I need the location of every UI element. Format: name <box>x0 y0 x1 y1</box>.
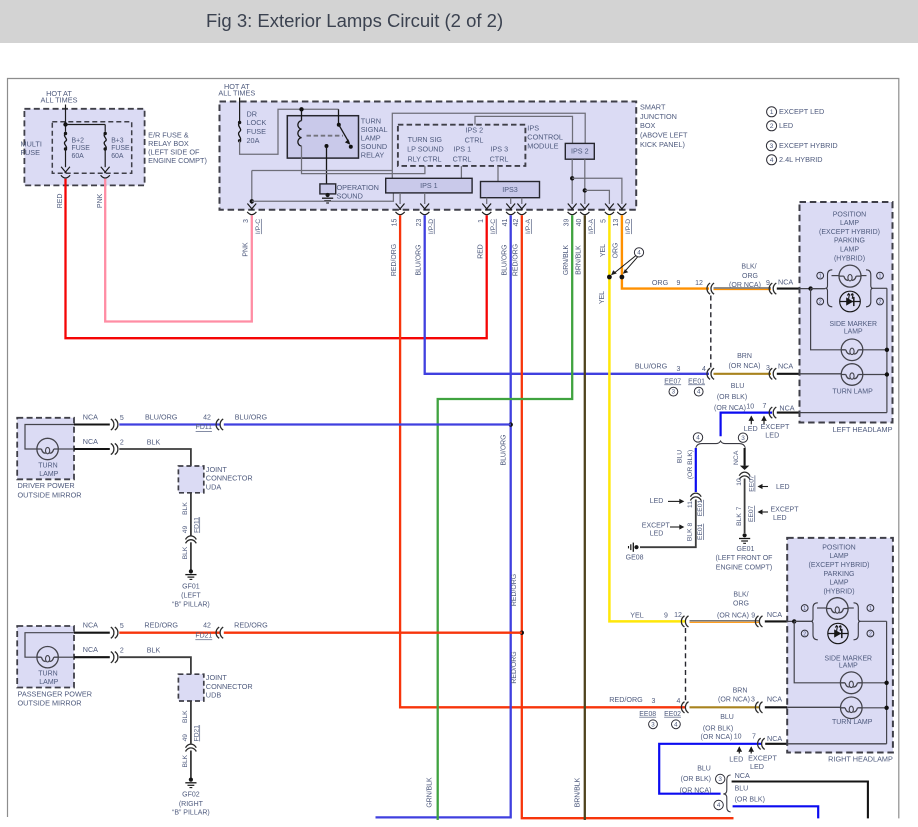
svg-text:2: 2 <box>770 123 774 130</box>
wire BLU/ORG to junction (driver) <box>224 423 511 425</box>
connector C1 right YEL row <box>681 616 688 627</box>
svg-text:BRN/BLK: BRN/BLK <box>576 245 583 275</box>
node turn lamp bus (left) <box>885 372 889 376</box>
svg-text:I/P-A: I/P-A <box>588 219 595 234</box>
svg-text:LAMP: LAMP <box>840 247 859 254</box>
LED lamp (left box) <box>840 291 861 312</box>
svg-text:LAMP: LAMP <box>39 471 58 478</box>
svg-text:POSITION: POSITION <box>822 544 855 551</box>
svg-text:CTRL: CTRL <box>490 155 509 164</box>
svg-text:LED: LED <box>773 515 787 522</box>
legend note 3 EXCEPT HYBRID <box>766 141 776 151</box>
wire right bus (right box) <box>886 621 888 744</box>
svg-text:LED: LED <box>765 430 779 439</box>
svg-text:12: 12 <box>695 280 703 287</box>
dashed link left pair <box>710 296 712 368</box>
wire NCA bottom right going off page <box>732 782 868 819</box>
svg-text:GF02: GF02 <box>182 792 200 799</box>
pin 41 connector (SJB) <box>506 204 515 215</box>
svg-text:OUTSIDE MIRROR: OUTSIDE MIRROR <box>18 490 82 499</box>
svg-text:BLU/ORG: BLU/ORG <box>145 412 178 421</box>
svg-text:3: 3 <box>243 219 250 223</box>
brace left of position lamp (right box) <box>811 603 818 640</box>
note 4 hybrid tie with arrows <box>634 248 643 257</box>
svg-text:(HYBRID): (HYBRID) <box>834 255 865 262</box>
svg-text:IPS 3: IPS 3 <box>491 144 509 153</box>
ground GF01 <box>185 569 196 579</box>
wire IPS2 to pin 39 <box>571 159 573 204</box>
pin 40 connector (SJB) <box>580 204 589 215</box>
svg-text:EXCEPT HYBRID: EXCEPT HYBRID <box>779 141 838 150</box>
svg-text:FUSE: FUSE <box>111 145 130 152</box>
connector C right ground row <box>758 738 765 749</box>
svg-text:(RIGHT: (RIGHT <box>179 801 204 808</box>
svg-text:I/P-D: I/P-D <box>428 219 435 234</box>
wire NCA inside right box to turn lamp <box>787 706 840 708</box>
svg-text:LAMP: LAMP <box>839 662 858 669</box>
svg-text:4: 4 <box>697 389 701 396</box>
svg-text:EXCEPT: EXCEPT <box>771 507 800 514</box>
connector C1 left ORG row <box>707 283 714 294</box>
pin 42 connector (SJB) <box>517 204 526 215</box>
svg-text:1: 1 <box>803 606 806 612</box>
svg-text:BLK: BLK <box>182 754 189 767</box>
svg-text:BLK: BLK <box>182 546 189 559</box>
svg-text:NCA: NCA <box>767 610 782 619</box>
legend note 2 LED <box>767 121 777 131</box>
svg-text:49: 49 <box>182 526 189 534</box>
ground GE01 <box>739 533 750 543</box>
svg-text:60A: 60A <box>72 153 85 160</box>
wire branch to pin 13 <box>572 178 622 204</box>
svg-text:5: 5 <box>120 623 124 630</box>
wire NCA into left headlamp position lamp <box>777 288 801 290</box>
note 4 under EE01 <box>694 387 703 396</box>
svg-text:42: 42 <box>203 623 211 630</box>
svg-text:EXCEPT LED: EXCEPT LED <box>779 107 824 116</box>
svg-text:EE01: EE01 <box>697 523 704 540</box>
connector FD21 (passenger) <box>216 627 223 638</box>
svg-text:LP SOUND: LP SOUND <box>407 144 444 153</box>
connector mirror bottom (driver) <box>111 443 118 454</box>
svg-text:YEL: YEL <box>630 611 644 620</box>
svg-text:1: 1 <box>770 109 774 116</box>
svg-text:LOCK: LOCK <box>247 118 267 127</box>
svg-text:42: 42 <box>203 414 211 421</box>
connector C2 left turn row <box>769 368 776 379</box>
svg-text:BLK: BLK <box>736 513 743 526</box>
wire side marker to bus (right) <box>862 682 886 684</box>
wire BRN/BLK pin 40 down <box>584 215 586 820</box>
svg-text:RED: RED <box>57 194 64 209</box>
wire RED/ORG pin 15 to right headlamp row <box>400 215 685 707</box>
svg-text:SOUND: SOUND <box>337 192 363 201</box>
svg-text:3: 3 <box>672 389 676 396</box>
relay coil <box>301 109 303 120</box>
node relay coil feed <box>299 107 303 111</box>
svg-text:8: 8 <box>687 523 694 527</box>
wire IPS1 to pin 15 <box>399 193 401 204</box>
svg-text:(OR NCA): (OR NCA) <box>701 734 733 741</box>
svg-text:BLU/ORG: BLU/ORG <box>501 434 508 465</box>
svg-text:SMART: SMART <box>640 103 666 112</box>
wire NCA inside left box to position node <box>800 288 825 290</box>
pin 39 connector (SJB) <box>568 204 577 215</box>
svg-text:FD21: FD21 <box>193 725 200 742</box>
svg-text:5: 5 <box>601 219 608 223</box>
wire fuse B+2 to pin <box>65 149 67 167</box>
note 2 right (right box) <box>867 630 874 637</box>
svg-text:PARKING: PARKING <box>824 571 855 578</box>
svg-text:(ABOVE LEFT: (ABOVE LEFT <box>640 131 688 140</box>
svg-text:MODULE: MODULE <box>527 141 558 150</box>
svg-text:TURN: TURN <box>38 671 57 678</box>
svg-text:1: 1 <box>879 273 882 279</box>
svg-text:NCA: NCA <box>83 645 98 654</box>
wire BLK below joint connector (passenger) <box>190 701 192 744</box>
svg-text:(OR NCA): (OR NCA) <box>729 282 761 289</box>
svg-text:1: 1 <box>869 606 872 612</box>
wire RED/ORG to FD21 (passenger) <box>119 632 219 634</box>
wire BLU right headlamp ground row <box>659 744 761 794</box>
svg-text:(OR BLK): (OR BLK) <box>703 726 733 733</box>
svg-text:ALL TIMES: ALL TIMES <box>41 96 78 105</box>
svg-text:OUTSIDE MIRROR: OUTSIDE MIRROR <box>18 699 82 708</box>
svg-text:2: 2 <box>803 631 806 637</box>
connector C1 right turn row <box>681 702 688 713</box>
svg-text:11: 11 <box>687 501 694 508</box>
ground operation sound <box>322 193 333 203</box>
svg-text:CONTROL: CONTROL <box>527 132 563 141</box>
svg-text:FD11: FD11 <box>193 517 200 533</box>
arrow EXCEPT LED (left headlamp pins) <box>761 416 767 425</box>
svg-text:NCA: NCA <box>778 278 793 287</box>
svg-text:JUNCTION: JUNCTION <box>640 112 677 121</box>
wire NCA inside left box to turn lamp <box>800 373 842 375</box>
svg-text:2: 2 <box>869 631 872 637</box>
wire BLK to joint connector (driver) <box>119 449 191 466</box>
svg-text:KICK PANEL): KICK PANEL) <box>640 140 685 149</box>
svg-text:LED: LED <box>750 762 764 771</box>
svg-text:CONNECTOR: CONNECTOR <box>206 682 253 691</box>
wire GRN/BLK pin 39 with jog <box>438 215 573 820</box>
svg-text:“B” PILLAR): “B” PILLAR) <box>172 601 210 608</box>
svg-text:ALL TIMES: ALL TIMES <box>218 89 255 98</box>
wire IPS3 to pin 1 <box>486 198 488 204</box>
wire NCA into right headlamp position lamp <box>765 620 788 622</box>
svg-text:BLU/ORG: BLU/ORG <box>416 244 423 275</box>
note 3 under EE07 <box>669 387 678 396</box>
svg-text:YEL: YEL <box>600 244 607 257</box>
relay box turn signal lamp sound relay <box>287 116 358 158</box>
pin 15 connector (SJB) <box>396 204 405 215</box>
svg-text:(LEFT: (LEFT <box>181 593 201 600</box>
wire BLU/ORG pin 23 to left turn row <box>425 215 709 374</box>
svg-text:UDA: UDA <box>206 482 222 491</box>
wire BLK/ORG segment right <box>690 620 760 622</box>
node hybrid tie on ORG <box>620 275 625 280</box>
note 4 at split left <box>693 433 702 442</box>
svg-text:23: 23 <box>416 219 423 227</box>
svg-text:EE07: EE07 <box>748 505 755 522</box>
wire IPS2 CTRL to IPS2 (W2) <box>475 116 573 143</box>
dashed link right pair <box>685 628 687 701</box>
svg-text:9: 9 <box>751 612 755 619</box>
svg-text:49: 49 <box>182 734 189 742</box>
svg-text:RED/ORG: RED/ORG <box>391 244 398 276</box>
svg-text:7: 7 <box>752 733 756 740</box>
wire branch to pin 5 <box>585 190 610 204</box>
svg-text:BRN: BRN <box>737 353 752 360</box>
svg-text:GE01: GE01 <box>737 546 755 553</box>
svg-text:7: 7 <box>762 403 766 410</box>
wire NCA into right turn lamp <box>765 706 788 708</box>
svg-text:TURN LAMP: TURN LAMP <box>832 719 873 726</box>
brace hybrid split bottom right <box>723 775 730 812</box>
joint connector UDB box <box>178 674 203 701</box>
wire NCA stub top (passenger) <box>74 632 110 634</box>
svg-text:BLU: BLU <box>676 450 683 463</box>
node right position feed <box>792 619 796 623</box>
joint connector UDA box <box>178 466 203 493</box>
svg-text:EXCEPT: EXCEPT <box>642 522 671 529</box>
svg-text:BLK/: BLK/ <box>741 264 756 271</box>
svg-text:RED/ORG: RED/ORG <box>609 695 643 704</box>
svg-text:GRN/BLK: GRN/BLK <box>427 777 434 808</box>
svg-text:POSITION: POSITION <box>833 211 866 218</box>
svg-text:RED/ORG: RED/ORG <box>234 621 268 630</box>
wire fuse B+3 to pin <box>104 149 106 167</box>
node side marker bus (right) <box>884 681 888 685</box>
node pin41 to driver mirror <box>509 422 513 426</box>
svg-text:DRIVER POWER: DRIVER POWER <box>18 481 75 490</box>
svg-text:RED/ORG: RED/ORG <box>144 621 178 630</box>
svg-text:RED/ORG: RED/ORG <box>511 651 518 683</box>
svg-text:(OR NCA): (OR NCA) <box>679 788 711 795</box>
svg-text:IPS 1: IPS 1 <box>454 144 472 153</box>
wire BLK/ORG segment left top <box>714 287 772 289</box>
svg-text:CTRL: CTRL <box>453 155 472 164</box>
wire bulb lead right <box>861 275 867 277</box>
svg-text:B+3: B+3 <box>111 137 124 144</box>
wire BRN segment left <box>714 373 772 375</box>
arrow LED (right headlamp pins) <box>737 746 743 753</box>
fuse B+3 60A <box>104 132 107 151</box>
svg-text:LAMP: LAMP <box>39 679 58 686</box>
svg-text:CONNECTOR: CONNECTOR <box>206 474 253 483</box>
svg-text:3: 3 <box>652 698 656 705</box>
wire RED B+2 to SJB pin 1 <box>66 179 487 338</box>
wire bulb lead right (right box) <box>848 607 854 609</box>
svg-text:YEL: YEL <box>599 291 606 304</box>
svg-text:4: 4 <box>677 698 681 705</box>
svg-text:(HYBRID): (HYBRID) <box>823 588 854 595</box>
svg-text:41: 41 <box>502 219 509 227</box>
position lamp bulb (left box) <box>839 265 861 287</box>
svg-text:FUSE: FUSE <box>72 145 91 152</box>
svg-text:7: 7 <box>736 506 743 510</box>
svg-text:DR: DR <box>247 109 258 118</box>
side marker lamp bulb (right) <box>840 672 862 694</box>
svg-text:39: 39 <box>563 219 570 227</box>
wire NCA into left turn lamp <box>777 373 801 375</box>
svg-text:LED: LED <box>650 498 664 505</box>
ground GE08 <box>629 543 639 552</box>
svg-text:(OR NCA): (OR NCA) <box>717 612 749 619</box>
IPS 1 box <box>386 178 472 193</box>
wire side marker to bus <box>863 349 887 351</box>
brace left of position lamp (left box) <box>825 270 832 307</box>
node left position feed <box>808 286 812 290</box>
svg-text:(OR NCA): (OR NCA) <box>714 405 746 412</box>
connector C left ground row <box>769 407 776 418</box>
svg-text:2: 2 <box>819 299 822 305</box>
svg-text:RED/ORG: RED/ORG <box>511 574 518 606</box>
wire brace to right bus (right box) <box>861 620 887 622</box>
svg-text:9: 9 <box>677 280 681 287</box>
svg-text:NCA: NCA <box>767 695 782 704</box>
svg-text:20A: 20A <box>247 136 260 145</box>
wire BLU left headlamp ground row <box>721 413 772 437</box>
wire BLK to GE01 <box>744 479 746 534</box>
svg-text:4: 4 <box>770 157 774 164</box>
svg-text:FUSE: FUSE <box>21 148 41 157</box>
svg-text:BOX: BOX <box>640 121 656 130</box>
wire hot feed into multifuse <box>65 105 67 132</box>
fuse DR LOCK 20A <box>238 121 241 143</box>
svg-text:EE07: EE07 <box>664 378 681 385</box>
wire right bus (left box) <box>886 288 888 412</box>
svg-text:UDB: UDB <box>206 691 222 700</box>
wire relay coil to IPS module RLY CTRL <box>302 146 425 174</box>
svg-text:I/P-A: I/P-A <box>525 219 532 234</box>
svg-text:4: 4 <box>674 721 678 728</box>
node hybrid tie on YEL <box>607 275 612 280</box>
note 1 right <box>877 272 884 279</box>
svg-text:LED: LED <box>650 531 664 538</box>
header bar <box>0 0 918 43</box>
wire IPS 1 CTRL riser <box>460 166 462 178</box>
svg-text:3: 3 <box>770 143 774 150</box>
pin connector multifuse right <box>101 167 110 178</box>
svg-text:LED: LED <box>744 424 758 433</box>
wire IPS1 top to IPS2 (W1) <box>392 113 585 178</box>
svg-text:NCA: NCA <box>767 734 782 743</box>
svg-text:LAMP: LAMP <box>829 580 848 587</box>
wire pin3 branch H1 <box>252 170 392 172</box>
operation sound box <box>320 184 336 194</box>
svg-text:BLU: BLU <box>697 766 711 773</box>
wire BLU/ORG to FD11 (driver) <box>119 423 219 425</box>
svg-text:PNK: PNK <box>243 242 250 257</box>
legend note 4 2.4L HYBRID <box>767 155 777 165</box>
svg-text:ORG: ORG <box>613 243 620 259</box>
turn lamp bulb (driver mirror) <box>25 425 74 450</box>
wire turn lamp to bus <box>863 374 887 376</box>
wire to left brace <box>811 288 826 290</box>
connector arrow into EE07 <box>740 466 749 470</box>
wire BLK to ground (passenger) <box>190 751 192 778</box>
svg-text:LED: LED <box>776 484 790 491</box>
svg-text:BLU: BLU <box>720 714 734 721</box>
node turn lamp bus (right) <box>884 706 888 710</box>
arrow EXCEPT LED (right headlamp pins) <box>748 746 754 753</box>
note 4 bottom right <box>714 800 723 809</box>
node pin42 to passenger mirror <box>520 631 524 635</box>
position lamp bulb (right box) <box>827 598 849 620</box>
svg-text:BLK: BLK <box>182 502 189 515</box>
svg-text:LEFT HEADLAMP: LEFT HEADLAMP <box>833 425 893 434</box>
side marker lamp bulb (left) <box>841 339 863 361</box>
svg-text:LAMP: LAMP <box>840 220 859 227</box>
svg-text:Fig 3: Exterior Lamps Circuit: Fig 3: Exterior Lamps Circuit (2 of 2) <box>206 10 503 31</box>
wire turn lamp to bus (right) <box>862 707 887 709</box>
svg-text:JOINT: JOINT <box>206 673 228 682</box>
note 1 right (right box) <box>867 605 874 612</box>
svg-text:(OR NCA): (OR NCA) <box>729 363 761 370</box>
svg-text:ORG: ORG <box>652 278 669 287</box>
svg-text:TURN SIG: TURN SIG <box>408 135 443 144</box>
wire side marker feed (right box) <box>794 621 840 682</box>
wire NCA bottom of right headlamp <box>765 743 788 745</box>
svg-text:EE01: EE01 <box>688 378 705 385</box>
svg-text:FD11: FD11 <box>196 424 213 431</box>
wire RED/ORG pin 42 down to bottom right <box>522 215 734 818</box>
svg-text:NCA: NCA <box>83 621 98 630</box>
svg-text:(OR NCA): (OR NCA) <box>718 697 750 704</box>
wire bulb lead left <box>832 275 840 277</box>
passenger power outside mirror box <box>17 626 74 688</box>
svg-text:BLU/ORG: BLU/ORG <box>502 244 509 275</box>
node IPS2 branch to pin 5 <box>583 188 587 192</box>
node multifuse feed junction <box>63 122 67 126</box>
wire NCA inside right box bottom return <box>787 743 886 745</box>
wire IPS 3 CTRL riser <box>497 166 499 181</box>
wire BRN segment right <box>690 706 760 708</box>
svg-text:RED: RED <box>478 244 485 259</box>
svg-text:LED: LED <box>729 754 743 763</box>
svg-text:IPS 1: IPS 1 <box>420 181 438 190</box>
wire pin3 riser <box>251 171 253 205</box>
svg-text:I/P-D: I/P-D <box>625 219 632 234</box>
svg-text:10: 10 <box>746 403 754 410</box>
svg-text:GRN/BLK: GRN/BLK <box>563 244 570 275</box>
connector mirror bottom (passenger) <box>111 652 118 663</box>
wire NCA inside right box to position node <box>787 620 811 622</box>
connector 49 FD21 (passenger) <box>186 744 197 751</box>
turn lamp bulb (passenger mirror) <box>25 633 74 658</box>
connector C2 right turn row <box>755 702 762 713</box>
wire NCA bottom of left headlamp <box>777 412 801 414</box>
arrow LED (left headlamp pins) <box>749 416 755 425</box>
wire BLK below joint connector (driver) <box>190 493 192 536</box>
svg-text:LED: LED <box>779 121 793 130</box>
svg-text:2: 2 <box>120 439 124 446</box>
svg-text:15: 15 <box>391 219 398 227</box>
pin 1 connector (SJB) <box>482 204 491 215</box>
note 1 left (bulb) <box>817 272 824 279</box>
svg-text:EE08: EE08 <box>639 711 656 718</box>
note 1 left (right box) <box>801 605 808 612</box>
driver power outside mirror box <box>17 418 74 480</box>
svg-text:IPS 2: IPS 2 <box>466 126 484 135</box>
svg-text:IPS: IPS <box>527 123 539 132</box>
svg-text:EE01: EE01 <box>697 500 704 517</box>
svg-text:NCA: NCA <box>779 403 794 412</box>
svg-text:FUSE: FUSE <box>247 127 267 136</box>
svg-text:12: 12 <box>674 612 682 619</box>
wire NCA inside left box bottom return <box>800 412 887 414</box>
